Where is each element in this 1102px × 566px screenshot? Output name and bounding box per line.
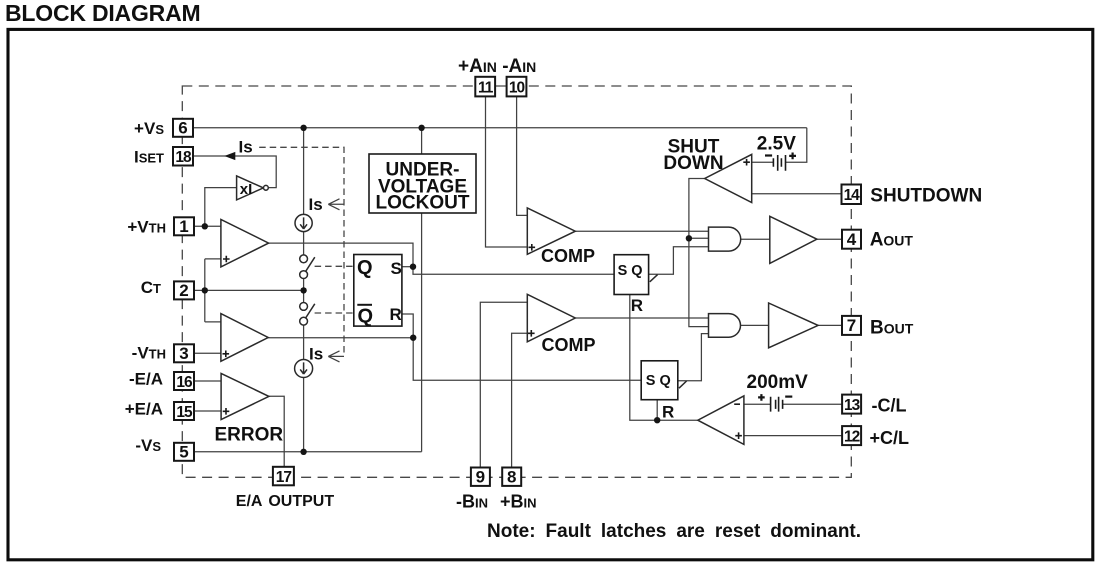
svg-text:SHUTDOWN: SHUTDOWN	[870, 186, 982, 207]
svg-text:DOWN: DOWN	[663, 153, 723, 174]
svg-text:CT: CT	[141, 278, 161, 297]
wire PWM comparator A output to AND gate A	[575, 230, 708, 232]
wire chain segment switch A to CT junction	[303, 279, 305, 303]
svg-text:Q: Q	[358, 306, 374, 328]
svg-text:Note: Fault latches are reset: Note: Fault latches are reset dominant.	[487, 521, 861, 542]
svg-text:15: 15	[176, 404, 193, 421]
wire AND gate A to buffer A	[741, 238, 770, 240]
svg-text:+E/A: +E/A	[125, 400, 163, 419]
dashed Is control line from ISET	[259, 147, 344, 356]
pin 17	[273, 467, 294, 486]
arrowhead into pin 18	[224, 152, 235, 160]
wire +Vs rail corner down to 2.5V battery	[786, 128, 807, 162]
svg-text:R: R	[631, 296, 643, 315]
dashed control line switch B to latch Qbar	[315, 312, 354, 314]
wire 200mV battery to pin 13	[783, 403, 842, 405]
svg-text:AOUT: AOUT	[870, 229, 914, 250]
pin 9	[471, 468, 490, 487]
AND gate A	[709, 227, 741, 251]
wire chain segment Is source to switch A	[303, 232, 305, 255]
svg-text:6: 6	[178, 119, 187, 138]
wire pin 9 to PWM comparator B - input	[480, 302, 536, 467]
PWM comparator B	[527, 294, 595, 355]
wire latch A R input to C/L comparator output	[630, 295, 698, 421]
svg-text:COMP: COMP	[542, 335, 596, 355]
under-voltage lockout box U1	[369, 154, 476, 213]
svg-text:-AIN: -AIN	[502, 56, 536, 77]
junction oscillator comparator B output	[410, 335, 416, 341]
wire latch B R input	[656, 400, 658, 421]
svg-text:4: 4	[847, 230, 857, 249]
pin 6	[173, 119, 193, 138]
wire latch A Q output to AND gate A	[649, 247, 709, 274]
svg-text:+VS: +VS	[134, 119, 164, 138]
wire latch B Q output to AND gate B	[678, 334, 709, 381]
pin 2	[174, 281, 194, 300]
junction CT at switch chain	[300, 287, 306, 293]
svg-text:COMP: COMP	[541, 246, 595, 266]
wire buffer A to pin 4	[817, 238, 842, 240]
svg-text:BOUT: BOUT	[870, 317, 914, 338]
wire PWM comparator B output to AND gate B	[575, 317, 708, 319]
PWM comparator A	[527, 208, 595, 266]
wire +Vs rail	[193, 127, 807, 129]
pin 5	[174, 443, 194, 462]
pin 16	[174, 372, 194, 391]
wire shutdown line branch to AND gate A	[689, 237, 709, 239]
svg-text:16: 16	[176, 374, 193, 391]
output buffer A	[770, 216, 817, 263]
junction chain at +Vs	[300, 125, 306, 131]
wire shutdown comparator output down to AND gates	[689, 179, 709, 327]
dashed control line switch A to latch Q	[315, 265, 354, 267]
oscillator comparator A	[221, 219, 269, 267]
wire +Vs to UVLO box	[421, 128, 423, 154]
pin 15	[174, 402, 194, 421]
svg-text:13: 13	[844, 397, 861, 414]
wire UVLO box down to -Vs rail	[421, 213, 423, 452]
svg-text:LOCKOUT: LOCKOUT	[376, 192, 470, 213]
junction UVLO at +Vs	[418, 125, 424, 131]
svg-text:11: 11	[478, 79, 494, 96]
error amplifier	[215, 373, 284, 445]
wire toggle flip-flop S output stub	[402, 266, 413, 268]
pin 4	[842, 230, 861, 249]
current source Is upper	[295, 214, 312, 231]
wire pin 11 to PWM comparator A + input	[486, 97, 529, 248]
svg-text:9: 9	[476, 468, 485, 487]
svg-text:ERROR: ERROR	[215, 425, 284, 446]
current-limit comparator	[698, 396, 744, 445]
svg-text:Is: Is	[239, 138, 253, 157]
svg-text:E/A OUTPUT: E/A OUTPUT	[236, 493, 335, 510]
junction latch B R on C/L line	[654, 417, 660, 423]
junction pin 1 node	[202, 223, 208, 229]
junction shutdown line at AND gate A	[686, 235, 692, 241]
toggle flip-flop box	[354, 255, 402, 328]
pin 7	[842, 316, 861, 335]
wire chain segment Is source 2 to -Vs rail	[303, 378, 305, 452]
wire chain segment switch B to Is source 2	[303, 325, 305, 359]
svg-text:+C/L: +C/L	[870, 428, 910, 448]
svg-text:17: 17	[276, 469, 292, 486]
svg-text:S Q: S Q	[646, 373, 671, 389]
svg-text:Is: Is	[309, 344, 323, 363]
wire C/L comparator - input to 200mV battery	[734, 403, 770, 405]
svg-text:8: 8	[507, 468, 516, 487]
svg-text:2.5V: 2.5V	[757, 133, 796, 154]
svg-text:+AIN: +AIN	[458, 56, 497, 77]
switch A	[300, 255, 315, 279]
wire shutdown comparator - input to pin 14	[744, 193, 842, 195]
switch B	[300, 303, 315, 326]
svg-text:S Q: S Q	[618, 263, 643, 279]
wire AND gate B to buffer B	[741, 324, 769, 326]
oscillator comparator B	[221, 314, 268, 362]
pin 3	[174, 344, 194, 363]
wire pin 2 CT to switch chain	[194, 289, 304, 291]
wire pin 5 -Vs rail	[194, 451, 422, 453]
svg-text:18: 18	[175, 149, 192, 166]
wire error amp output to pin 17	[269, 396, 284, 467]
wire buffer B to pin 7	[818, 324, 842, 326]
AND gate B	[709, 314, 741, 338]
pin 8	[502, 468, 521, 487]
wire pin 8 to PWM comparator B + input	[512, 333, 529, 467]
200mV reference battery	[747, 372, 809, 411]
IC boundary dashed rectangle	[182, 86, 851, 477]
wire CT link to oscillator comparator B - input	[205, 321, 230, 323]
current source Is lower	[295, 360, 313, 378]
svg-text:ISET: ISET	[134, 147, 164, 166]
pin 11	[475, 77, 495, 97]
svg-text:-C/L: -C/L	[872, 396, 907, 416]
wire oscillator comparator A output to latch A S input	[269, 243, 614, 274]
svg-text:Q: Q	[357, 257, 373, 279]
Is control arrow lower	[328, 351, 344, 362]
pin 13	[842, 395, 861, 414]
PWM latch A	[614, 255, 658, 315]
PWM latch B	[641, 361, 686, 422]
wire pin 10 to PWM comparator A - input	[517, 97, 536, 216]
wire 2.5V battery to shutdown comparator + input	[743, 161, 773, 163]
svg-text:10: 10	[509, 79, 525, 96]
pin 1	[174, 217, 194, 236]
wire current source chain from +Vs	[303, 128, 305, 215]
wire toggle flip-flop R output to latch B S input	[402, 314, 641, 380]
svg-text:+VTH: +VTH	[127, 217, 166, 236]
junction CT link	[202, 287, 208, 293]
shutdown comparator	[663, 136, 751, 202]
pin 10	[507, 77, 527, 97]
wire pin 1 junction up to xI buffer input	[205, 188, 237, 227]
pin 14	[842, 185, 862, 205]
svg-text:-E/A: -E/A	[129, 370, 163, 389]
wire xI buffer output to pin 18	[193, 156, 276, 188]
output buffer B	[769, 303, 819, 348]
wire CT vertical link	[204, 259, 206, 322]
wire pin 15 to error amp + input	[194, 410, 222, 412]
svg-text:R: R	[390, 305, 402, 324]
2.5V reference battery	[757, 133, 796, 170]
svg-text:5: 5	[179, 443, 188, 462]
xI buffer	[237, 176, 269, 200]
wire CT link to oscillator comparator A + input	[205, 258, 222, 260]
svg-text:-VS: -VS	[135, 436, 161, 455]
wire oscillator comparator B output	[268, 337, 413, 339]
svg-text:2: 2	[179, 281, 188, 300]
svg-text:7: 7	[847, 316, 856, 335]
svg-text:xI: xI	[240, 181, 253, 198]
Is control arrow upper	[328, 199, 344, 210]
svg-text:200mV: 200mV	[747, 372, 809, 393]
svg-text:S: S	[391, 259, 402, 278]
pin 12	[842, 426, 861, 445]
wire pin 1 to oscillator comparator A - input	[194, 225, 230, 227]
svg-text:BLOCK DIAGRAM: BLOCK DIAGRAM	[5, 0, 200, 26]
wire C/L comparator + input to pin 12	[733, 435, 842, 437]
svg-text:12: 12	[844, 429, 860, 446]
svg-text:R: R	[662, 402, 674, 421]
wire pin 16 to error amp - input	[194, 380, 230, 382]
svg-text:14: 14	[844, 187, 861, 204]
junction toggle S output	[410, 264, 416, 270]
svg-text:-VTH: -VTH	[132, 344, 166, 363]
pin 18	[173, 147, 193, 166]
wire pin 3 to oscillator comparator B + input	[194, 352, 222, 354]
svg-text:Is: Is	[309, 195, 323, 214]
svg-text:3: 3	[179, 344, 188, 363]
junction chain at -Vs rail	[300, 449, 306, 455]
svg-text:1: 1	[179, 217, 188, 236]
